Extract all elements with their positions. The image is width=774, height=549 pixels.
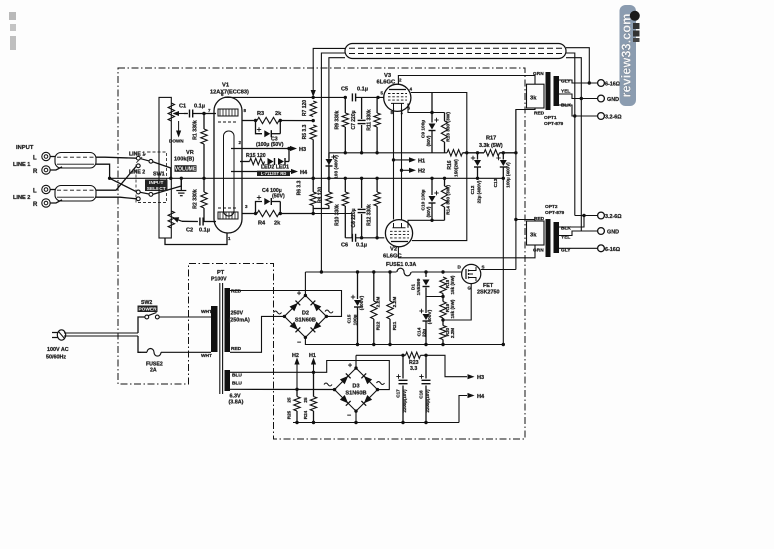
svg-text:R: R: [33, 202, 38, 208]
shielded cable input line2: [55, 186, 96, 202]
wire OPT1 YEL tap to GND: [559, 94, 598, 99]
tube V3 6L6GC envelope: [384, 84, 411, 111]
svg-text:OPT-879: OPT-879: [545, 210, 565, 216]
wire OPT2 3.2-6 row: [575, 215, 598, 217]
svg-text:22µ (400V): 22µ (400V): [477, 180, 482, 203]
wire C1 to V1 grid: [193, 113, 216, 115]
svg-text:(400V): (400V): [359, 295, 365, 310]
FET 2SK2750: [462, 264, 481, 283]
SW1 dashed enclosure: [136, 152, 167, 203]
svg-text:R24: R24: [303, 410, 308, 419]
svg-text:C17: C17: [396, 389, 401, 398]
svg-text:WHT: WHT: [201, 309, 212, 315]
svg-text:OPT1: OPT1: [544, 115, 557, 121]
LED1: [278, 158, 284, 165]
svg-text:GND: GND: [607, 230, 619, 236]
svg-text:LED2 LED1: LED2 LED1: [261, 165, 289, 171]
label POWER (inverse): [138, 306, 158, 313]
junction R21 top: [388, 270, 391, 273]
transformer OPT2 secondary bar: [554, 222, 560, 253]
svg-text:H1: H1: [309, 353, 316, 359]
junction R18/R19: [441, 295, 444, 298]
svg-text:WHT: WHT: [201, 353, 212, 359]
wire cable1 shield to bus: [96, 164, 110, 178]
screen rail left end / capacitor C11 103(400V): [328, 153, 330, 158]
svg-text:0.1µ: 0.1µ: [356, 243, 367, 249]
wire pot bottom return: [165, 233, 227, 245]
junction R11 bottom: [375, 151, 378, 154]
resistor R23 3.3: [406, 352, 421, 358]
junction 3.2-6 row: [573, 114, 576, 117]
chassis ground border (dash-dot outline): [118, 68, 525, 439]
svg-text:H4: H4: [477, 394, 485, 400]
capacitor C8 220u: [361, 178, 363, 208]
junction 6-16 node: [588, 81, 591, 84]
junction R6 top on bus: [312, 177, 315, 180]
terminal GND OPT2: [598, 228, 605, 235]
switch SW1 pole2 contact upper: [136, 190, 140, 194]
resistor R21 2.2M: [389, 272, 391, 301]
svg-text:R16: R16: [447, 160, 453, 169]
wire C2 to V1 grid: [203, 221, 216, 223]
wire V2 plate to OPT2 GRN: [398, 245, 535, 258]
wire cable1 conductor to SW1: [96, 157, 137, 158]
svg-text:R1 330k: R1 330k: [193, 120, 199, 140]
junction bus at SW1 return: [169, 177, 172, 180]
junction R4 right: [279, 212, 282, 215]
junction gnd row: [580, 97, 583, 100]
wire V3 screen to screen rail: [411, 93, 467, 153]
svg-text:RED: RED: [534, 216, 545, 222]
wire main middle bus: [110, 177, 504, 179]
svg-text:V3: V3: [384, 73, 392, 79]
svg-text:R11 330k: R11 330k: [367, 109, 373, 131]
junction C10 bottom: [430, 219, 433, 222]
junction R1 top: [202, 112, 205, 115]
wire R6/R8 join bar: [313, 206, 329, 209]
wire bus to SW1 pole2 (cross): [110, 178, 137, 192]
resistor R13 330 (3W): [444, 113, 446, 122]
tube V1 12AX7 envelope: [214, 97, 242, 233]
AC plug: [52, 333, 59, 338]
svg-text:(50V): (50V): [272, 194, 285, 200]
capacitor C7 220u: [361, 97, 363, 119]
arrow H1 up: [313, 364, 315, 373]
transformer OPT2 core bar: [546, 219, 551, 257]
svg-text:D2: D2: [302, 310, 309, 316]
junction V3 grid: [376, 96, 379, 99]
resistor R14 330 (3W): [444, 178, 446, 186]
potentiometer VR body box: [159, 97, 171, 238]
jack R line1: [42, 166, 50, 174]
junction C15 top: [356, 270, 359, 273]
AC cord double line: [64, 332, 138, 334]
wire cable-right conductor2 down to OPT2 3.2-6 ohm: [566, 53, 575, 216]
svg-text:2.2M: 2.2M: [450, 328, 455, 338]
resistor R2 330k: [203, 178, 205, 192]
capacitor C2: [199, 218, 201, 226]
junction R22 bottom: [372, 343, 375, 346]
svg-text:R12 330k: R12 330k: [367, 204, 373, 226]
switch SW1 pole2 arm: [140, 192, 149, 194]
junction R18 top: [441, 270, 444, 273]
wire R17 to B+ node: [500, 152, 516, 154]
svg-text:RED: RED: [231, 346, 242, 352]
resistor R11 330k: [376, 97, 378, 113]
svg-text:C12: C12: [470, 185, 476, 194]
wire PT BLU top to H1 node: [230, 361, 389, 390]
wire B+ riser: [515, 110, 517, 270]
svg-text:LINE 1: LINE 1: [129, 152, 145, 158]
junction stub: [312, 212, 315, 215]
junction R5 bottom on bus: [312, 177, 315, 180]
svg-text:2200µ(16V): 2200µ(16V): [425, 389, 430, 413]
wire D1 to R18/R19 node: [426, 296, 443, 298]
svg-text:R4: R4: [258, 221, 266, 227]
svg-text:−: −: [297, 340, 301, 347]
capacitor C12 22u(400V): [477, 153, 479, 160]
arrow H3: [290, 146, 297, 151]
svg-text:R: R: [33, 169, 38, 175]
svg-text:2k: 2k: [274, 221, 281, 227]
junction screen branch: [430, 111, 433, 114]
wire SW1 pole1 common to bus: [153, 162, 171, 179]
resistor R22 2.2M: [373, 272, 375, 301]
svg-text:(50V): (50V): [426, 135, 431, 146]
wire cable2 shield to SW1: [96, 197, 137, 199]
svg-text:S: S: [482, 265, 485, 270]
svg-text:R14 330 (3W): R14 330 (3W): [446, 185, 452, 215]
junction B+ node: [514, 151, 517, 154]
tube V2 cathode: [393, 223, 406, 228]
tube V2 plate bar: [391, 241, 408, 243]
svg-text:VR: VR: [186, 150, 194, 156]
wire C13 column down to PS ground rail: [502, 178, 504, 344]
arrow H2 up: [296, 364, 298, 389]
svg-text:100k(B): 100k(B): [174, 157, 194, 163]
transformer OPT1 core bar: [546, 72, 551, 110]
svg-text:V2: V2: [390, 247, 397, 253]
junction bus at ground stub: [180, 177, 183, 180]
svg-text:2A: 2A: [150, 368, 157, 374]
switch SW2: [145, 315, 149, 319]
svg-text:GND: GND: [607, 97, 619, 103]
wire L1 jack to cable: [50, 156, 55, 158]
junction feedback node R7: [312, 96, 315, 99]
capacitor C9 100u(50V): [431, 113, 433, 123]
svg-text:R25: R25: [287, 410, 292, 419]
potentiometer VR gang1 wiper: [178, 113, 184, 115]
svg-text:GRN: GRN: [533, 71, 544, 77]
svg-text:R15 120: R15 120: [246, 153, 266, 159]
svg-text:R13 330 (3W): R13 330 (3W): [446, 112, 452, 142]
wire R4 node to R6/R8 stub: [280, 213, 313, 215]
junction R20 bottom: [441, 343, 444, 346]
svg-text:SELECT: SELECT: [147, 186, 166, 192]
svg-text:BLK: BLK: [561, 226, 571, 232]
svg-text:6L6GC: 6L6GC: [383, 254, 402, 260]
svg-text:C14: C14: [416, 327, 422, 336]
junction C12 bottom: [476, 177, 479, 180]
svg-text:(50V): (50V): [426, 206, 431, 217]
terminal GND OPT1: [598, 95, 605, 102]
svg-text:(3.8A): (3.8A): [229, 400, 244, 406]
label INPUT SELECT (inverse): [145, 180, 168, 192]
wire OPT1 RED to B+ riser: [516, 108, 535, 153]
capacitor C14 22u(400V): [425, 297, 427, 314]
scan smudge top-left: [9, 12, 16, 20]
junction R10 top: [344, 177, 347, 180]
shielded cable input line1: [55, 153, 96, 169]
capacitor C10 100u(50V): [431, 178, 433, 195]
wire PT RED bottom to bridge: [230, 316, 285, 352]
svg-text:C9 100µ: C9 100µ: [421, 120, 427, 138]
junction R2 top: [202, 177, 205, 180]
jack L line1: [42, 152, 50, 160]
junction C7 bottom: [360, 151, 363, 154]
resistor R7 120 (feedback): [310, 101, 316, 117]
junction riser/B+: [320, 270, 323, 273]
junction R22 top: [372, 270, 375, 273]
resistor R1 330k: [203, 114, 205, 130]
svg-text:DOWN: DOWN: [169, 139, 184, 144]
wire rail to H4: [459, 396, 467, 423]
svg-text:LINE 2: LINE 2: [129, 169, 145, 175]
resistor R5 3.3 (feedback): [310, 125, 316, 140]
wire V3 plate to OPT1 GRN: [398, 76, 535, 85]
junction input bus: [108, 177, 111, 180]
transformer OPT1 primary box: [527, 84, 545, 108]
svg-text:3.2-6Ω: 3.2-6Ω: [605, 214, 622, 220]
rotation arrow DOWN: [178, 121, 180, 133]
junction D1 top: [424, 270, 427, 273]
junction C15 bottom: [356, 343, 359, 346]
wire R23 to H3 corner: [421, 355, 468, 376]
capacitor C1: [184, 113, 188, 115]
wire gate from divider: [443, 284, 471, 320]
svg-text:POWER: POWER: [138, 306, 157, 312]
wire C5 to V3 grid: [356, 96, 385, 98]
shielded cable (top harness): [345, 44, 566, 59]
svg-text:INPUT: INPUT: [16, 145, 34, 151]
wire V2 screen to screen node: [412, 153, 467, 241]
svg-text:R5 3.3: R5 3.3: [302, 124, 308, 139]
svg-text:H2: H2: [418, 169, 425, 175]
bridge rectifier D2 S1N60B: [284, 295, 326, 337]
PS ground rail junction: [502, 343, 505, 346]
svg-text:FET: FET: [483, 283, 494, 289]
svg-text:C2: C2: [186, 228, 193, 234]
svg-text:100µ (400V): 100µ (400V): [506, 162, 511, 188]
svg-text:D3: D3: [352, 384, 359, 390]
arrow heater H2: [400, 169, 403, 172]
svg-text:C7 220µ: C7 220µ: [351, 110, 357, 129]
wire D2 plus to B+ rail: [304, 272, 306, 295]
wire wiper to C2: [182, 220, 198, 222]
transformer PT primary bar: [211, 306, 218, 352]
switch SW1 pole2 contact lower: [136, 197, 140, 201]
wire D2 minus to ground rail: [305, 337, 503, 344]
junction R9 top: [344, 96, 347, 99]
svg-text:P100V: P100V: [211, 277, 227, 283]
svg-text:2k: 2k: [275, 111, 282, 117]
wire V2 pin line: [408, 220, 445, 228]
svg-text:R21: R21: [392, 321, 398, 330]
ground symbol at volume: [180, 178, 182, 190]
svg-text:RED: RED: [231, 289, 242, 295]
svg-text:25: 25: [287, 397, 292, 403]
svg-text:GLY: GLY: [561, 79, 571, 85]
svg-text:0.1µ: 0.1µ: [199, 228, 210, 234]
resistor R19 15k(5W): [442, 297, 444, 302]
svg-text:R9 330k: R9 330k: [335, 110, 341, 129]
B+ rail with FUSE1: [305, 271, 396, 273]
fuse FUSE1 0.3A: [397, 268, 411, 276]
tube V1 top triode plate: [218, 109, 238, 116]
potentiometer VR gang1 element: [168, 103, 174, 121]
potentiometer VR gang2 element: [168, 211, 174, 228]
wire V3 screen branch down: [431, 93, 433, 113]
svg-text:PT: PT: [217, 270, 225, 276]
terminal 6-16 OPT2: [598, 245, 605, 252]
wire SW1 pole2 common to bus: [153, 178, 182, 194]
wire V3 pin line: [408, 103, 445, 112]
wire LED return up: [288, 149, 290, 162]
svg-text:22µ: 22µ: [422, 329, 428, 337]
svg-text:S1N60B: S1N60B: [345, 391, 366, 397]
wire D3 minus to heater ground rail: [355, 411, 357, 422]
wire PT RED top to bridge: [230, 291, 342, 317]
svg-text:OPT2: OPT2: [545, 204, 558, 210]
svg-text:C1: C1: [179, 104, 186, 110]
watermark logo dot: [630, 11, 640, 21]
bridge rectifier D3 S1N60B: [335, 368, 378, 411]
wire cord to SW2: [138, 317, 145, 333]
svg-text:R3: R3: [257, 111, 264, 117]
svg-text:H2: H2: [292, 353, 299, 359]
junction C12 top: [476, 151, 479, 154]
transformer PT core: [219, 283, 221, 394]
transformer OPT2 primary box: [527, 221, 545, 245]
jack L line2: [42, 185, 50, 193]
resistor R25 25: [296, 389, 298, 396]
svg-text:+: +: [348, 363, 352, 370]
svg-text:3.2-6Ω: 3.2-6Ω: [605, 115, 622, 121]
junction C8 bottom: [360, 236, 363, 239]
resistor R3 2k: [257, 117, 279, 123]
wire R1 jack to cable: [50, 167, 62, 170]
resistor R8 120: [328, 178, 330, 192]
svg-text:L: L: [33, 156, 37, 162]
switch SW1 pole1 common: [149, 159, 153, 163]
svg-text:R2 330k: R2 330k: [193, 189, 199, 209]
wire R16 to R17: [463, 152, 485, 154]
diode D1 1N5399: [425, 272, 427, 277]
wire SW2 to PT: [159, 316, 211, 318]
wire cable-right conductor1 to 6-16 ohm: [566, 48, 589, 83]
svg-text:BLU: BLU: [232, 373, 242, 379]
svg-text:LINE 1: LINE 1: [13, 162, 30, 168]
wire heater H4: [231, 171, 283, 173]
svg-text:2.2M: 2.2M: [376, 297, 382, 308]
resistor R24 25: [313, 372, 315, 396]
capacitor C3 100u(50V): [256, 121, 263, 134]
svg-text:FUSE1 0.3A: FUSE1 0.3A: [386, 262, 416, 268]
junction R19/R20 gate node: [441, 318, 444, 321]
svg-text:BLU: BLU: [232, 381, 242, 387]
junction B+ OPT2: [514, 218, 517, 221]
svg-text:C15: C15: [347, 314, 353, 323]
wire OPT1 BLK tap to 3.2-6ohm: [559, 105, 598, 116]
svg-text:INPUT: INPUT: [149, 180, 163, 186]
svg-text:6-16Ω: 6-16Ω: [605, 247, 621, 253]
capacitor C5 0.1u (coupling): [351, 93, 353, 101]
wire cable-right conductor3 down to OPT2 GND: [566, 58, 581, 231]
junction R12 bottom: [375, 236, 378, 239]
svg-text:12AX7(ECC83): 12AX7(ECC83): [210, 90, 249, 96]
switch SW1 pole1 contact LINE2: [136, 164, 140, 168]
junction C14 bottom: [424, 343, 427, 346]
wire R3 node to R7/R5 junction: [280, 120, 313, 122]
resistor R12 330k: [376, 178, 378, 192]
svg-text:LINE 2: LINE 2: [13, 195, 30, 201]
wire screen rail: [329, 152, 447, 154]
arrow H3 output: [468, 374, 475, 379]
junction R14 top: [443, 177, 446, 180]
junction C8 top: [360, 177, 363, 180]
svg-text:250V: 250V: [231, 311, 244, 317]
svg-text:+: +: [297, 291, 301, 298]
svg-text:(400V): (400V): [427, 309, 433, 324]
terminal 3.2-6 ohm OPT2: [598, 212, 605, 219]
watermark logo text: [633, 23, 640, 29]
svg-text:C8 220µ: C8 220µ: [351, 208, 357, 227]
tube V3 cathode: [391, 103, 404, 108]
svg-text:H3: H3: [477, 375, 484, 381]
capacitor C17 2200u(16V): [402, 355, 404, 378]
tube V3 plate bar: [389, 89, 406, 91]
svg-text:0.1µ: 0.1µ: [194, 104, 205, 110]
switch SW1 pole1 contact LINE1: [136, 156, 140, 160]
junction R7/R5: [312, 119, 315, 122]
svg-text:GRN: GRN: [533, 248, 544, 254]
junction C13 bottom: [502, 177, 505, 180]
wire corner down to C6: [351, 214, 353, 238]
terminal 3.2-6 ohm: [598, 113, 605, 120]
svg-text:−: −: [347, 413, 351, 420]
switch SW1 pole2 common: [149, 193, 153, 197]
svg-text:review33.com: review33.com: [619, 14, 634, 98]
svg-text:100µ: 100µ: [353, 314, 359, 325]
jack R line2: [42, 199, 50, 207]
fuse FUSE2 2A: [141, 351, 147, 353]
junction R9 bottom: [344, 151, 347, 154]
wire V1 pin8 to R3: [242, 120, 256, 122]
svg-text:150(2W): 150(2W): [454, 159, 459, 177]
heater ground rail: [293, 422, 459, 424]
svg-text:C13: C13: [493, 178, 499, 187]
wire cable-left conductor2 riser: [321, 53, 345, 272]
svg-text:2200µ(16V): 2200µ(16V): [402, 389, 407, 413]
potentiometer VR gang2 wiper: [178, 220, 182, 222]
svg-text:R8 120: R8 120: [318, 187, 324, 203]
LED2: [268, 158, 274, 165]
svg-text:H4: H4: [300, 170, 308, 176]
junction C16 top: [424, 354, 427, 357]
svg-text:3.3k (5W): 3.3k (5W): [479, 143, 503, 149]
svg-text:100V AC: 100V AC: [47, 347, 69, 353]
svg-text:(250mA): (250mA): [229, 318, 250, 324]
